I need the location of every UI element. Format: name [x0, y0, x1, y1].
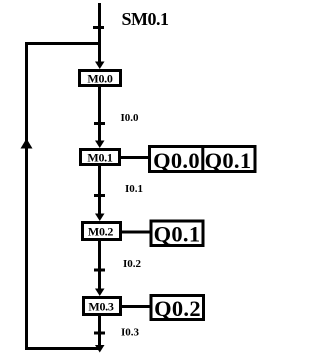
wire: bottom branch horizontal	[25, 347, 101, 350]
wire: connector M0.1 to action boxes	[120, 156, 150, 159]
svg-text:I0.1: I0.1	[125, 183, 143, 195]
wire: spine M0.1 to M0.2	[98, 166, 101, 215]
wire: connector M0.3 to Q0.2	[121, 305, 151, 308]
arrowhead down at bottom	[95, 345, 105, 353]
arrowhead into M0.0	[95, 62, 105, 70]
wire: spine M0.0 to M0.1	[98, 87, 101, 142]
action box pair outline	[150, 147, 256, 172]
action box Q0.1 (paired)	[203, 146, 252, 173]
wire: spine M0.3 to bottom	[98, 316, 101, 347]
action box Q0.1	[151, 221, 203, 247]
arrowhead into M0.2	[95, 214, 105, 222]
step box M0.2	[83, 223, 121, 240]
svg-text:Q0.1: Q0.1	[154, 222, 201, 247]
svg-text:Q0.0: Q0.0	[153, 148, 200, 173]
action box Q0.2	[151, 296, 204, 322]
svg-text:M0.1: M0.1	[87, 150, 112, 164]
svg-text:I0.0: I0.0	[121, 112, 140, 124]
arrowhead into M0.3	[95, 289, 105, 297]
svg-text:SM0.1: SM0.1	[122, 9, 170, 29]
action box Q0.0	[153, 148, 200, 173]
svg-text:M0.0: M0.0	[87, 71, 112, 85]
step box M0.0	[80, 71, 121, 86]
transition bar I0.1	[94, 194, 105, 197]
step box M0.1	[81, 150, 120, 165]
arrowhead into M0.1	[95, 141, 105, 149]
wire: connector M0.2 to Q0.1	[121, 231, 151, 234]
wire: top branch horizontal	[25, 42, 101, 45]
wire: main spine top segment	[98, 3, 101, 64]
wire: left return line	[25, 42, 28, 350]
svg-text:M0.2: M0.2	[88, 224, 113, 238]
transition bar I0.0	[94, 122, 105, 125]
transition bar I0.2	[94, 269, 105, 272]
transition bar SM0.1	[93, 26, 104, 29]
svg-text:I0.2: I0.2	[123, 258, 142, 270]
step box M0.3	[84, 298, 121, 315]
svg-text:M0.3: M0.3	[88, 299, 113, 313]
transition bar I0.3	[94, 332, 105, 335]
svg-text:Q0.1: Q0.1	[205, 148, 252, 173]
svg-text:Q0.2: Q0.2	[154, 296, 201, 321]
wire: spine M0.2 to M0.3	[98, 241, 101, 290]
svg-text:I0.3: I0.3	[121, 327, 140, 339]
arrowhead up on return line	[21, 139, 33, 149]
